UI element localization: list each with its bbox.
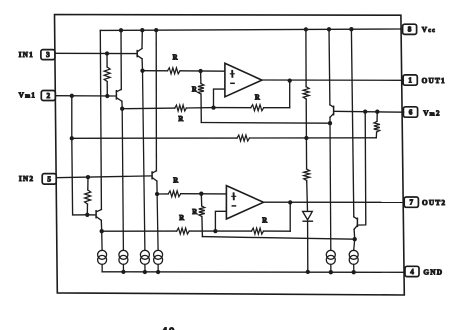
junction GND-D1 bbox=[306, 270, 310, 274]
current source I1 (Q6 leg) bbox=[98, 231, 107, 272]
junction GND-I2 bbox=[121, 270, 125, 274]
current source I6 (QR2 leg) bbox=[349, 239, 358, 272]
junction Vcc-QR2 bbox=[349, 27, 353, 31]
svg-text:40: 40 bbox=[162, 327, 176, 330]
transistor Q1 bbox=[137, 30, 142, 70]
pin 7 box bbox=[404, 197, 418, 207]
svg-text:R: R bbox=[173, 177, 178, 184]
junction QR2 emitter node bbox=[353, 237, 357, 241]
junction opamp2 plus node bbox=[199, 192, 203, 196]
junction Q1 emitter node bbox=[140, 69, 144, 73]
label R4 bbox=[255, 95, 260, 102]
pin 1 box bbox=[403, 75, 417, 85]
svg-text:OUT1: OUT1 bbox=[422, 76, 446, 85]
wire OUT2 bbox=[264, 201, 405, 203]
svg-text:R: R bbox=[262, 217, 267, 224]
wire Vcc to R8 bbox=[305, 29, 307, 86]
current source I2 (Q2 leg) bbox=[119, 109, 128, 272]
junction Vm2-R10 bbox=[375, 110, 379, 114]
svg-text:8: 8 bbox=[408, 26, 412, 34]
resistor R4b (opamp2 feedback) bbox=[215, 228, 290, 234]
svg-text:R: R bbox=[192, 209, 197, 216]
op-amp U1 bbox=[225, 63, 262, 97]
wire R9 to diode D1 bbox=[306, 181, 309, 212]
junction node138-R8 bbox=[304, 136, 308, 140]
wire OUT1 bbox=[262, 79, 404, 81]
transistor Q2 bbox=[116, 30, 122, 108]
wire feedback up to OUT2 bbox=[289, 202, 291, 231]
svg-text:IN1: IN1 bbox=[19, 50, 34, 59]
wire R8 to node138 bbox=[305, 99, 307, 138]
wire Q5 emitter to R5 bbox=[157, 193, 168, 195]
wire Vm node rail y138 bbox=[72, 137, 237, 139]
wire node138 to R9 bbox=[305, 138, 307, 169]
svg-text:R: R bbox=[178, 116, 183, 123]
wire opamp1 + bias to QR1 emitter bbox=[201, 122, 330, 125]
pin 8 box bbox=[403, 24, 417, 34]
wire feedback up to OUT1 bbox=[289, 81, 291, 108]
diode D1 bbox=[303, 211, 313, 221]
pin 1 label OUT1 bbox=[422, 76, 446, 85]
pin 3 box bbox=[41, 50, 55, 60]
junction OUT2 feedback tap bbox=[288, 200, 292, 204]
wire R3 to minus node bbox=[186, 107, 213, 109]
junction Q5 emitter node bbox=[155, 192, 159, 196]
wire IN2 (pin5 to Q5 base) bbox=[56, 176, 151, 178]
wire opamp2 + bias to QR2 emitter bbox=[202, 237, 354, 240]
op-amp U2 bbox=[226, 186, 263, 219]
wire Vm1 (pin2 to Q2 base) bbox=[55, 95, 116, 97]
junction Vcc-Q1 bbox=[140, 28, 144, 32]
wire R5 to opamp2 + bbox=[181, 193, 227, 195]
pin 4 box bbox=[405, 266, 419, 276]
resistor R10 (to Vm2) bbox=[374, 112, 380, 138]
svg-text:6: 6 bbox=[409, 108, 413, 116]
wire x365 drop (QR2 base) bbox=[358, 112, 366, 226]
transistor Q6 bbox=[96, 30, 102, 231]
wire R1 to opamp1 + bbox=[180, 70, 225, 72]
junction x72-y138 rail bbox=[70, 136, 74, 140]
junction GND-I3 bbox=[143, 270, 147, 274]
pin 3 label IN1 bbox=[19, 50, 34, 59]
wire R7 to R10 corner bbox=[250, 137, 377, 139]
wire Q6 base bbox=[87, 214, 95, 216]
label R2 bbox=[192, 86, 197, 93]
pin 2 box bbox=[41, 91, 55, 101]
wire minus node to opamp2 - bbox=[215, 211, 226, 231]
pin 7 label OUT2 bbox=[422, 198, 446, 207]
label R5 bbox=[173, 177, 178, 184]
junction GND-I4 bbox=[156, 270, 160, 274]
resistor R7 bbox=[237, 135, 250, 141]
wire R6 to minus node 2 bbox=[189, 230, 215, 232]
junction Vcc-Q2 bbox=[119, 28, 123, 32]
wire Q1 emitter to R1 bbox=[143, 70, 168, 72]
junction OUT1 feedback tap bbox=[288, 78, 292, 82]
svg-text:R: R bbox=[192, 86, 197, 93]
junction Vm2-x365 bbox=[363, 109, 367, 113]
svg-text:4: 4 bbox=[410, 268, 414, 276]
svg-text:3: 3 bbox=[46, 51, 50, 59]
label R2b bbox=[192, 209, 197, 216]
junction Vcc-QR1 bbox=[327, 27, 331, 31]
junction Q6 base wire - Rin2 bbox=[85, 213, 89, 217]
junction Q6 emitter node bbox=[100, 229, 104, 233]
current source I3 (Q1 leg) bbox=[140, 71, 149, 272]
svg-text:OUT2: OUT2 bbox=[422, 198, 446, 207]
Vcc rail bbox=[100, 29, 401, 30]
IC body outline bbox=[55, 15, 405, 296]
current source I4 (Q5 leg) bbox=[154, 194, 163, 272]
pin 5 label IN2 bbox=[19, 174, 34, 183]
wire minus node to opamp1 - bbox=[214, 89, 225, 108]
resistor R2 (opamp1 + to Vm node) bbox=[198, 71, 204, 123]
junction Vcc-Q5 bbox=[154, 28, 158, 32]
junction QR1 emitter node bbox=[328, 121, 332, 125]
pin 4 label GND bbox=[423, 268, 443, 277]
svg-text:R: R bbox=[173, 55, 178, 62]
svg-text:GND: GND bbox=[423, 268, 443, 277]
junction Q2 emitter node bbox=[120, 107, 124, 111]
wire IN1 (pin3 to Q1 base) bbox=[55, 52, 137, 54]
transistor QR2 (Vm2 bias lower) bbox=[351, 29, 357, 239]
label R4b bbox=[262, 217, 267, 224]
current source I5 (QR1 leg) bbox=[326, 123, 335, 272]
resistor R5 bbox=[168, 191, 181, 197]
resistor R2b (opamp2 + bias) bbox=[199, 194, 205, 237]
junction IN2-Rin2 bbox=[86, 175, 90, 179]
wire Vm2 (pin6) bbox=[334, 110, 404, 113]
pin 2 label Vm1 bbox=[19, 91, 37, 100]
resistor R1 bbox=[168, 68, 181, 74]
junction GND-I5 bbox=[329, 270, 333, 274]
wire Vm1 drop x72 bbox=[72, 96, 88, 215]
resistor R8 bbox=[303, 87, 309, 99]
svg-text:R: R bbox=[179, 215, 184, 222]
junction Vm1-Rin1 bbox=[105, 94, 109, 98]
svg-text:1: 1 bbox=[408, 76, 412, 84]
svg-text:2: 2 bbox=[47, 92, 51, 100]
pin 5 box bbox=[42, 174, 56, 185]
junction opamp1 plus node bbox=[198, 69, 202, 73]
wire D1 to GND rail bbox=[307, 221, 309, 272]
resistor Rin1 bbox=[104, 54, 110, 97]
transistor QR1 (Vm2 bias upper) bbox=[329, 29, 334, 123]
label R3 bbox=[178, 116, 183, 123]
pin 6 box bbox=[403, 107, 417, 117]
pin 8 label Vcc bbox=[422, 25, 436, 34]
resistor R9 bbox=[304, 169, 310, 181]
junction GND-I6 bbox=[352, 270, 356, 274]
wire Q2 emitter to R3 bbox=[122, 107, 175, 110]
label R1 bbox=[173, 55, 178, 62]
svg-text:7: 7 bbox=[410, 199, 414, 207]
junction opamp1 minus node bbox=[211, 105, 215, 109]
resistor R4 (opamp1 feedback) bbox=[214, 105, 290, 111]
svg-text:5: 5 bbox=[47, 175, 51, 183]
resistor R6 bbox=[177, 228, 190, 234]
pin 6 label Vm2 bbox=[423, 108, 441, 117]
junction opamp2 minus node bbox=[213, 229, 217, 233]
label R6 bbox=[179, 215, 184, 222]
svg-text:IN2: IN2 bbox=[19, 174, 34, 183]
junction Vm1-x72 bbox=[70, 94, 74, 98]
junction Vcc-R8 bbox=[304, 27, 308, 31]
svg-text:R: R bbox=[255, 95, 260, 102]
resistor R3 bbox=[175, 105, 187, 111]
GND rail bbox=[102, 271, 405, 274]
junction IN1-Rin1 bbox=[105, 51, 109, 55]
wire Q6 emitter rail y231 bbox=[102, 230, 177, 232]
transistor Q5 bbox=[152, 30, 157, 194]
page number 40 bbox=[162, 327, 176, 330]
resistor Rin2 bbox=[85, 177, 91, 215]
